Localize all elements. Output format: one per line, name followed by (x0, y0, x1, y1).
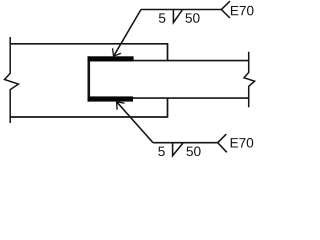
main member M1 top edge (wire) (10, 43, 167, 45)
electrode label E70 (top) (231, 6, 254, 16)
main member M1 bottom edge (wire) (10, 116, 167, 118)
main member M1 right end, lower segment (167, 98, 169, 118)
weld length label 50 (bottom) (186, 147, 200, 157)
weld bead W2 (bottom fillet weld, thick bar) (88, 96, 134, 101)
branch member M2 left end edge (88, 56, 91, 101)
arrowhead of bottom leader (117, 102, 125, 110)
arrowhead of top leader (113, 48, 122, 56)
branch member M2 bottom edge (wire) (88, 97, 249, 99)
tail of top weld callout (221, 1, 230, 18)
leader line of bottom weld callout (117, 102, 153, 143)
weld length label 50 (top) (185, 13, 199, 23)
leader line of top weld callout (114, 10, 141, 57)
electrode label E70 (bottom) (231, 138, 254, 148)
reference line of top weld callout (141, 9, 221, 11)
fillet weld symbol (bottom callout) (173, 143, 183, 156)
break line (right) of member M2 (244, 52, 255, 107)
weld bead W1 (top fillet weld, thick bar) (88, 56, 134, 61)
main member M1 right end, upper segment (167, 43, 169, 61)
break line (left) of member M1 (5, 37, 19, 123)
branch member M2 top edge (wire) (88, 60, 249, 62)
tail of bottom weld callout (218, 134, 227, 152)
weld size label 5 (top) (159, 13, 165, 22)
reference line of bottom weld callout (153, 142, 218, 144)
weld size label 5 (bottom) (158, 147, 164, 156)
fillet weld symbol (top callout) (173, 10, 182, 23)
